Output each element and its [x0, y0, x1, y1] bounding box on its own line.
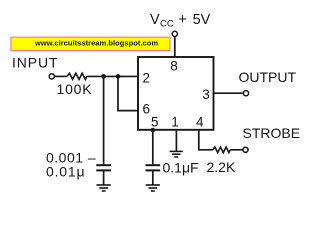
junction node A	[101, 74, 106, 79]
wire VCC terminal to pin 8	[174, 37, 176, 58]
junction at pin 5	[151, 128, 156, 133]
resistor R2 2.2K	[213, 147, 230, 153]
junction node B	[116, 74, 121, 79]
power label VCC +5V	[150, 12, 211, 30]
strobe terminal	[243, 147, 248, 152]
wire C1 to ground	[103, 170, 105, 184]
svg-text:2.2K: 2.2K	[207, 159, 236, 175]
wire pin 1 to ground	[175, 130, 177, 151]
wire pin 4 to R2	[199, 130, 213, 150]
wire R1 to pin 2	[87, 75, 138, 77]
output terminal	[243, 91, 248, 96]
svg-text:2: 2	[142, 71, 150, 86]
svg-text:www.circuitsstream.blogspot.co: www.circuitsstream.blogspot.com	[34, 38, 159, 47]
svg-text:100K: 100K	[57, 81, 93, 97]
VCC terminal	[172, 31, 177, 36]
capacitor C1	[96, 165, 111, 170]
svg-text:4: 4	[196, 114, 204, 129]
capacitor C2	[146, 165, 161, 170]
resistor R1 100K	[67, 73, 87, 79]
svg-text:+: +	[178, 12, 186, 28]
wire node B to pin 6	[118, 76, 138, 110]
svg-text:V: V	[150, 12, 160, 28]
input terminal	[49, 74, 54, 79]
wire input terminal to R1	[54, 75, 67, 77]
svg-text:8: 8	[170, 59, 178, 74]
ground below C1	[97, 185, 111, 191]
wire pin 3 to output terminal	[214, 92, 244, 94]
svg-text:6: 6	[142, 101, 150, 116]
wire pin 5 down to C2	[152, 130, 154, 165]
ground at pin 1	[170, 151, 183, 157]
op-amp IC U1	[138, 57, 214, 130]
svg-text:5V: 5V	[193, 12, 211, 28]
svg-text:1: 1	[171, 114, 179, 129]
svg-text:5: 5	[151, 114, 159, 129]
svg-text:OUTPUT: OUTPUT	[239, 69, 297, 85]
ground below C2	[146, 185, 160, 191]
svg-text:0.01μ: 0.01μ	[46, 163, 85, 179]
svg-text:3: 3	[202, 87, 210, 102]
svg-text:STROBE: STROBE	[243, 125, 301, 141]
wire C2 to ground	[152, 170, 154, 184]
svg-text:CC: CC	[160, 19, 174, 30]
wire node A down to C1	[103, 76, 105, 165]
wire R2 to strobe terminal	[230, 149, 243, 151]
watermark banner	[11, 37, 170, 50]
svg-text:0.1μF: 0.1μF	[163, 160, 199, 176]
svg-text:INPUT: INPUT	[12, 54, 59, 70]
